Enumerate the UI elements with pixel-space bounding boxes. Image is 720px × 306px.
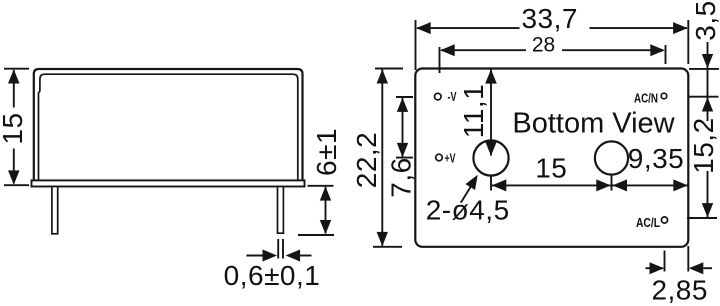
dimension 22,2 line: [381, 70, 383, 246]
svg-text:15: 15: [0, 112, 28, 144]
dimension 2,85 arrows: [646, 267, 664, 269]
hole callout 2-ø4,5 leader: [461, 187, 471, 203]
hole center ticks: [490, 175, 492, 191]
pin width dimension arrows: [247, 255, 265, 257]
dimension 11,1 line: [490, 70, 492, 156]
svg-text:15: 15: [535, 152, 567, 183]
dimension 15 tick top: [4, 68, 29, 70]
right pin: [278, 187, 284, 234]
module bottom flange: [32, 180, 305, 186]
dimension 22,2 ticks: [375, 68, 403, 70]
svg-text:11,1: 11,1: [458, 84, 489, 138]
svg-text:6±1: 6±1: [311, 128, 342, 176]
svg-text:22,2: 22,2: [351, 132, 382, 189]
svg-text:7,6: 7,6: [386, 157, 417, 197]
dimension 15 tick bottom: [4, 184, 29, 186]
dimension 7,6 ticks: [396, 96, 413, 98]
dimension 6±1 line: [325, 187, 327, 234]
dimension 7,6 line: [402, 98, 404, 157]
svg-text:AC/N: AC/N: [634, 90, 658, 105]
tick box top right: [689, 68, 719, 70]
left pin: [52, 187, 58, 234]
svg-text:28: 28: [532, 34, 555, 57]
pin AC/N: [661, 93, 667, 99]
pin +V: [436, 154, 443, 161]
tick AC/L row: [687, 217, 717, 219]
dimension 6±1 tick bottom: [298, 234, 334, 236]
bottom view outline: [415, 69, 688, 247]
dimension 33,7 extension lines: [415, 20, 417, 70]
svg-text:+V: +V: [445, 150, 456, 165]
svg-text:15,2: 15,2: [688, 117, 719, 174]
mounting hole left: [473, 140, 508, 175]
svg-text:-V: -V: [448, 89, 457, 104]
tick AC/N row: [689, 96, 719, 98]
dimension 15 line: [13, 70, 15, 108]
module case seam (inner line): [39, 74, 298, 180]
svg-text:AC/L: AC/L: [636, 215, 660, 230]
dimension 28 extension ticks: [439, 47, 441, 73]
module body outline: [34, 69, 303, 180]
pin AC/L: [661, 217, 667, 223]
dimension 33,7 line: [417, 27, 520, 29]
dimension 28 line: [441, 49, 526, 51]
dimension 2,85 extension lines: [664, 251, 666, 272]
svg-text:2,85: 2,85: [651, 275, 708, 306]
svg-text:0,6±0,1: 0,6±0,1: [224, 260, 321, 291]
dimension line 3,5 / 15,2: [707, 42, 709, 121]
svg-text:3,5: 3,5: [690, 0, 720, 40]
svg-text:33,7: 33,7: [521, 3, 578, 34]
svg-text:2-ø4,5: 2-ø4,5: [426, 195, 510, 226]
dimension 6±1 tick top: [308, 185, 334, 187]
svg-text:Bottom View: Bottom View: [512, 108, 675, 140]
svg-text:9,35: 9,35: [628, 143, 685, 174]
dimension 15 / 9,35 line: [492, 184, 688, 186]
pin -V: [435, 93, 442, 100]
pin width extension lines: [277, 239, 279, 259]
mounting hole right: [595, 141, 628, 174]
